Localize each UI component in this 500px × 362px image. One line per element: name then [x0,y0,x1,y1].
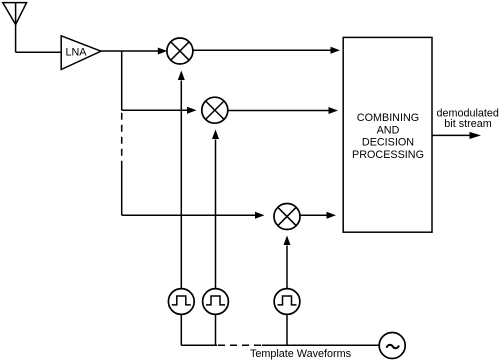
stem pulse generator 2 [215,314,217,345]
arrowhead into mixer 2 [187,107,197,114]
oscillator (sine source) [379,333,405,359]
arrowhead template 1 [178,71,185,81]
template arrow to mixer 3 [286,246,288,289]
arrowhead template 3 [284,236,291,246]
template arrow to mixer 2 [215,140,217,289]
mixer M3 [274,204,300,230]
arrowhead into mixer 1 [158,48,168,55]
template arrow to mixer 1 [180,81,182,289]
wire tap 3 vertical [121,161,123,215]
svg-text:Template Waveforms: Template Waveforms [250,348,352,360]
wire tap 2 to mixer 2 [122,109,189,111]
antenna [3,3,27,53]
tap junction vertical wire [121,51,123,110]
svg-text:bit stream: bit stream [444,118,491,130]
stem pulse generator 1 [180,314,182,345]
wire antenna to LNA [16,51,61,53]
wire tap 3 to mixer 3 [122,214,256,216]
arrowhead output [470,132,482,139]
stem pulse generator 3 [286,314,288,345]
template bus dashed [218,344,262,346]
wire mixer 3 to box [300,214,327,216]
arrowhead into box (top) [331,47,341,54]
arrowhead into box (middle) [329,107,339,114]
dashed wire (omitted fingers) [121,113,123,162]
pulse generator P3 [274,289,300,315]
arrowhead template 2 [212,130,219,140]
template bus solid right [262,344,379,346]
svg-text:LNA: LNA [65,46,87,58]
pulse generator P1 [168,289,194,315]
svg-text:PROCESSING: PROCESSING [352,149,424,161]
arrowhead into box (bottom) [327,212,337,219]
mixer M2 [202,97,228,123]
wire LNA to mixer 1 [101,50,160,52]
wire mixer 2 to box [228,110,329,112]
pulse generator P2 [203,289,229,315]
svg-text:COMBINING: COMBINING [357,112,419,124]
arrowhead into mixer 3 [255,212,265,219]
wire box output [432,134,471,136]
svg-text:DECISION: DECISION [362,137,414,149]
amplifier LNA [61,36,101,70]
template bus solid left [181,344,217,346]
block COMBINING AND DECISION PROCESSING [343,37,432,232]
mixer M1 [167,38,193,64]
svg-text:AND: AND [377,124,400,136]
wire mixer 1 to box [193,49,331,51]
